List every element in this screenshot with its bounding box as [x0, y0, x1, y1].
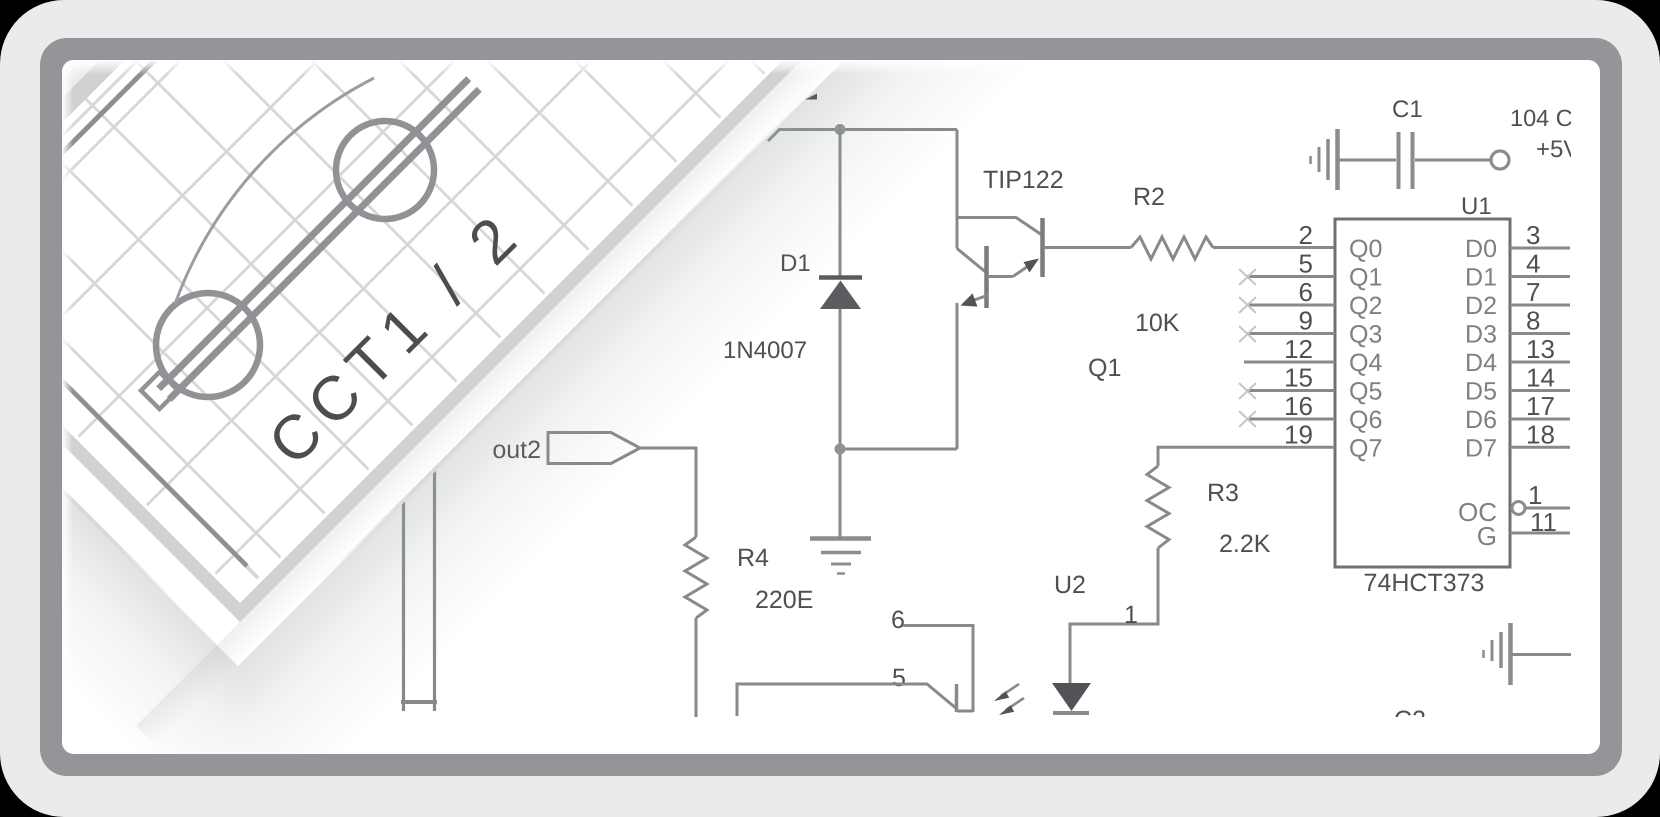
svg-text:R4: R4	[737, 544, 769, 572]
phototransistor base bar	[955, 684, 959, 712]
pin 8 wire	[1510, 332, 1570, 335]
svg-text:R2: R2	[1133, 183, 1165, 211]
svg-text:Q6: Q6	[1349, 406, 1382, 434]
capacitor C1	[1399, 132, 1413, 189]
pin 18 wire	[1510, 446, 1570, 449]
port out2	[548, 433, 640, 464]
svg-text:19: 19	[1284, 419, 1313, 449]
svg-text:D0: D0	[1465, 235, 1497, 263]
resistor R4	[685, 537, 707, 618]
pin 11 wire	[1510, 532, 1570, 535]
svg-text:220E: 220E	[755, 586, 813, 614]
wire U1 pin 19 to R3	[1158, 447, 1335, 466]
svg-text:1: 1	[1124, 601, 1138, 629]
svg-text:9: 9	[1299, 305, 1313, 335]
pin 4 wire	[1510, 275, 1570, 278]
pin 6 wire	[903, 626, 973, 713]
svg-text:D2: D2	[1465, 292, 1497, 320]
wire D1 to ground	[839, 309, 842, 537]
svg-text:Q5: Q5	[1349, 378, 1382, 406]
no-connect X pin 6	[1239, 297, 1256, 313]
svg-text:D5: D5	[1465, 377, 1497, 405]
svg-text:Q0: Q0	[1349, 235, 1382, 263]
pin 3 wire	[1510, 247, 1570, 250]
wire top rail to D1	[839, 130, 842, 278]
no-connect X pin 9	[1239, 326, 1256, 342]
clipped wire stub	[805, 94, 817, 100]
svg-text:15: 15	[1284, 362, 1313, 392]
ground (below D1)	[810, 539, 871, 574]
svg-text:13: 13	[1526, 334, 1555, 364]
light arrow 2	[999, 698, 1024, 715]
no-connect X pin 5	[1239, 269, 1256, 285]
svg-text:U1: U1	[1461, 193, 1492, 220]
wire top rail	[768, 130, 957, 142]
ground (bottom right, sideways)	[1484, 623, 1511, 685]
svg-text:6: 6	[1299, 277, 1313, 307]
svg-text:Q7: Q7	[1349, 435, 1382, 463]
wire R2 to U1 pin 2	[1213, 246, 1335, 249]
svg-text:6: 6	[891, 606, 905, 634]
svg-text:5: 5	[1299, 248, 1313, 278]
node junction bottom	[835, 444, 846, 455]
resistor R3	[1147, 466, 1169, 548]
svg-text:D6: D6	[1465, 406, 1497, 434]
svg-text:Q2: Q2	[1349, 292, 1382, 320]
no-connect X pin 16	[1239, 411, 1256, 427]
svg-text:1: 1	[1528, 480, 1542, 510]
svg-text:G: G	[1477, 521, 1497, 551]
light arrow 1	[994, 684, 1019, 701]
svg-text:D1: D1	[1465, 263, 1497, 291]
diode D1	[819, 278, 862, 310]
pin 12 no-connect wire	[1244, 361, 1335, 364]
svg-text:4: 4	[1526, 249, 1540, 279]
svg-text:Q3: Q3	[1349, 321, 1382, 349]
wire Q1 collector	[956, 130, 959, 249]
svg-text:11: 11	[1530, 507, 1557, 537]
schematic (scanned circuit fragment)	[401, 94, 1579, 735]
wire out2 to R4	[640, 448, 696, 537]
transistor Q1 (TIP122 darlington)	[957, 218, 1043, 450]
pin 1 wire	[1525, 507, 1570, 510]
svg-text:U2: U2	[1054, 571, 1086, 599]
svg-text:74HCT373: 74HCT373	[1364, 569, 1485, 597]
svg-text:14: 14	[1526, 363, 1555, 393]
pin 9 no-connect wire	[1246, 332, 1335, 335]
phototransistor emitter stub	[957, 710, 973, 713]
svg-text:R3: R3	[1207, 479, 1239, 507]
svg-text:16: 16	[1284, 391, 1313, 421]
pin 6 no-connect wire	[1246, 304, 1335, 307]
wire R4 down (clipped)	[695, 618, 698, 717]
wire ground right	[1512, 653, 1571, 656]
connector (partially hidden)	[401, 471, 437, 711]
svg-text:10K: 10K	[1135, 309, 1180, 337]
pin 13 wire	[1510, 361, 1570, 364]
svg-text:7: 7	[1526, 277, 1540, 307]
svg-text:12: 12	[1284, 334, 1313, 364]
svg-text:2.2K: 2.2K	[1219, 530, 1271, 558]
svg-text:Q1: Q1	[1349, 264, 1382, 292]
ground (C1, sideways)	[1311, 129, 1338, 190]
pin 15 no-connect wire	[1246, 389, 1335, 392]
wire R3 to U2 pin 1	[1070, 548, 1158, 683]
svg-text:Q4: Q4	[1349, 349, 1382, 377]
pin 17 wire	[1510, 418, 1570, 421]
svg-text:5: 5	[892, 664, 906, 692]
no-connect X pin 15	[1239, 383, 1256, 399]
svg-text:2: 2	[1299, 220, 1313, 250]
svg-text:3: 3	[1526, 220, 1540, 250]
svg-text:Q1: Q1	[1088, 354, 1121, 382]
wire Q1 base to R2	[1044, 246, 1131, 249]
wire ground to C1	[1339, 159, 1396, 162]
pin 7 wire	[1510, 304, 1570, 307]
LED of optocoupler U2	[1052, 683, 1091, 713]
svg-text:18: 18	[1526, 420, 1555, 450]
pin 16 no-connect wire	[1246, 418, 1335, 421]
svg-text:8: 8	[1526, 306, 1540, 336]
terminal +5V (open circle)	[1491, 151, 1509, 169]
svg-text:D3: D3	[1465, 320, 1497, 348]
svg-text:TIP122: TIP122	[983, 166, 1064, 194]
OC inversion bubble	[1512, 502, 1525, 515]
svg-text:D4: D4	[1465, 349, 1497, 377]
wire C1 to +5V terminal	[1415, 159, 1491, 162]
wire D1 node to Q1 emitter	[840, 448, 957, 451]
resistor R2	[1131, 237, 1213, 259]
pin 14 wire	[1510, 389, 1570, 392]
IC U1 body	[1335, 219, 1510, 567]
node junction top	[835, 124, 846, 135]
svg-text:C1: C1	[1392, 96, 1423, 123]
pin 5 wire	[737, 684, 957, 716]
pin 5 no-connect wire	[1246, 275, 1335, 278]
svg-text:104 C: 104 C	[1510, 105, 1573, 131]
svg-text:17: 17	[1526, 391, 1555, 421]
svg-text:D7: D7	[1465, 434, 1497, 462]
